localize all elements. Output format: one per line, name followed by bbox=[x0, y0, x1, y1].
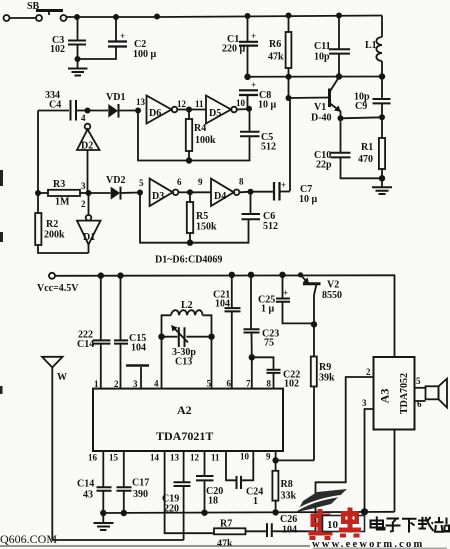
pin 10 wire bbox=[240, 451, 253, 480]
svg-text:R2: R2 bbox=[46, 219, 58, 230]
node C11 bottom bbox=[336, 73, 342, 79]
svg-text:43: 43 bbox=[83, 490, 93, 501]
svg-text:R1: R1 bbox=[361, 142, 373, 153]
node V2 collector C25 bbox=[311, 321, 317, 327]
svg-text:C14: C14 bbox=[77, 339, 94, 350]
capacitor C10 bbox=[314, 118, 382, 178]
inverter D3 bbox=[137, 177, 190, 206]
svg-text:TDA7052: TDA7052 bbox=[399, 373, 410, 414]
svg-text:1: 1 bbox=[94, 379, 99, 389]
pin 3 wire A3 bbox=[362, 398, 374, 512]
capacitor C14 bottom bbox=[77, 479, 112, 514]
svg-text:A2: A2 bbox=[177, 403, 192, 417]
svg-text:9: 9 bbox=[198, 177, 203, 187]
svg-text:15: 15 bbox=[109, 453, 119, 463]
svg-text:W: W bbox=[57, 372, 67, 383]
capacitor C23 bbox=[244, 275, 280, 358]
svg-text:C9: C9 bbox=[355, 101, 367, 112]
wire Vcc rail bbox=[55, 275, 395, 357]
watermark bug char 1 bbox=[309, 509, 333, 540]
node Vcc C14 bbox=[98, 272, 104, 278]
node tank right bbox=[208, 334, 214, 340]
wire y77 rail bbox=[248, 76, 382, 78]
svg-text:C11: C11 bbox=[314, 41, 331, 52]
resistor R6 bbox=[268, 16, 291, 99]
svg-text:6: 6 bbox=[177, 177, 182, 187]
svg-text:75: 75 bbox=[264, 338, 274, 349]
pin 14 wire bbox=[150, 451, 214, 533]
svg-text:1: 1 bbox=[253, 496, 258, 507]
svg-text:12: 12 bbox=[190, 453, 200, 463]
svg-text:C4: C4 bbox=[49, 100, 61, 111]
svg-text:100 μ: 100 μ bbox=[133, 49, 157, 60]
wire left column bbox=[37, 111, 39, 194]
svg-text:3: 3 bbox=[133, 379, 138, 389]
node gnd R8 bbox=[272, 509, 278, 515]
svg-text:5: 5 bbox=[139, 178, 144, 188]
Vcc terminal bbox=[37, 273, 79, 294]
resistor R1 bbox=[358, 117, 385, 178]
capacitor C6 bbox=[242, 192, 279, 232]
svg-text:R5: R5 bbox=[196, 211, 208, 222]
node R3 right bbox=[86, 190, 92, 196]
svg-text:www.eeworm.com: www.eeworm.com bbox=[312, 539, 424, 549]
node gnd C17 bbox=[121, 510, 127, 516]
capacitor C21 bbox=[213, 275, 241, 389]
svg-text:220 μ: 220 μ bbox=[222, 44, 246, 55]
svg-text:4: 4 bbox=[81, 113, 86, 123]
node D3 out / R5 top bbox=[187, 189, 193, 195]
wire emitter to C9 bottom bbox=[341, 117, 383, 118]
svg-text:C14: C14 bbox=[77, 479, 94, 490]
svg-text:33k: 33k bbox=[281, 491, 297, 502]
wire ground rail bbox=[103, 512, 394, 513]
svg-text:Q606.COM: Q606.COM bbox=[0, 532, 57, 546]
pin 13 wire bbox=[170, 451, 184, 482]
wire V1 base to C7 riser bbox=[289, 98, 291, 191]
svg-text:102: 102 bbox=[50, 44, 65, 55]
svg-text:3: 3 bbox=[81, 181, 86, 191]
node R5 bottom bbox=[187, 240, 193, 246]
capacitor C25 bbox=[258, 275, 314, 324]
node V2 emitter on rail bbox=[298, 272, 303, 277]
resistor R7 bbox=[214, 519, 266, 549]
svg-text:R3: R3 bbox=[53, 179, 65, 190]
svg-text:5: 5 bbox=[207, 379, 212, 389]
capacitor C17 bbox=[117, 478, 150, 514]
svg-text:V2: V2 bbox=[327, 280, 339, 291]
svg-text:390: 390 bbox=[133, 489, 148, 500]
transistor V1 bbox=[311, 77, 341, 124]
svg-text:14: 14 bbox=[150, 453, 160, 463]
diode VD1 bbox=[88, 92, 139, 118]
capacitor C26 bbox=[267, 514, 316, 537]
svg-text:12: 12 bbox=[177, 99, 187, 109]
resistor R5 bbox=[187, 192, 217, 242]
capacitor C13 variable bbox=[162, 325, 212, 368]
node V1 emitter bbox=[338, 115, 344, 121]
svg-text:2: 2 bbox=[114, 379, 119, 389]
svg-text:L1: L1 bbox=[365, 40, 377, 51]
inverter D2 bbox=[77, 124, 100, 193]
diode VD2 bbox=[89, 175, 141, 200]
svg-text:D1~D6:CD4069: D1~D6:CD4069 bbox=[155, 255, 222, 266]
node R3 left bbox=[35, 190, 41, 196]
node top rail dots bbox=[74, 13, 342, 21]
wire antenna bottom rail bbox=[52, 539, 183, 541]
capacitor C14 top bbox=[77, 276, 111, 389]
svg-text:R7: R7 bbox=[220, 519, 232, 530]
svg-text:D5: D5 bbox=[209, 108, 221, 119]
svg-text:13: 13 bbox=[136, 97, 146, 107]
resistor R8 bbox=[272, 460, 296, 512]
node tank left bbox=[158, 334, 164, 340]
svg-text:47k: 47k bbox=[217, 539, 233, 549]
svg-text:6: 6 bbox=[227, 379, 232, 389]
op-amp U1 A2 TDA7021T chip bbox=[93, 389, 283, 451]
capacitor C9 bbox=[354, 77, 391, 118]
inductor L1 bbox=[365, 16, 382, 77]
svg-text:D4: D4 bbox=[214, 191, 226, 202]
node D6 out / R4 top bbox=[186, 107, 192, 113]
svg-text:D2: D2 bbox=[81, 141, 93, 152]
svg-text:10: 10 bbox=[236, 98, 246, 108]
svg-text:39k: 39k bbox=[319, 373, 335, 384]
svg-text:104: 104 bbox=[282, 525, 297, 536]
svg-text:+: + bbox=[251, 31, 256, 41]
pin 3 stub bbox=[126, 366, 149, 390]
capacitor C7 bbox=[251, 180, 318, 205]
watermark white box 10 bbox=[323, 516, 365, 532]
node C4-VD1 bbox=[85, 108, 91, 114]
svg-text:2: 2 bbox=[366, 367, 371, 377]
svg-text:D3: D3 bbox=[152, 191, 164, 202]
node gnd C20 bbox=[201, 510, 207, 516]
svg-text:+: + bbox=[281, 180, 286, 190]
antenna W bbox=[42, 357, 67, 540]
capacitor C15 bbox=[114, 276, 146, 389]
svg-text:13: 13 bbox=[170, 453, 180, 463]
pin 12 wire bbox=[190, 451, 205, 476]
node Vcc C21 bbox=[229, 272, 235, 278]
svg-text:V1: V1 bbox=[314, 102, 326, 113]
wire A3 pin6 bbox=[415, 399, 426, 409]
watermark bug char 2 bbox=[339, 508, 361, 538]
node gnd C14b bbox=[100, 510, 106, 516]
wire base lead bbox=[289, 97, 329, 100]
capacitor C5 bbox=[240, 109, 276, 153]
capacitor C2 bbox=[78, 17, 157, 60]
node C23 bottom bbox=[249, 354, 255, 360]
svg-text:C13: C13 bbox=[175, 357, 192, 368]
svg-text:470: 470 bbox=[358, 154, 373, 165]
switch SB bbox=[4, 1, 67, 21]
ground below R1 bbox=[372, 178, 392, 194]
wire A3 pin5 bbox=[415, 376, 426, 388]
svg-text:D6: D6 bbox=[149, 108, 161, 119]
wire A3 gnd pin bbox=[394, 430, 396, 512]
node gnd A3pin3 bbox=[361, 508, 368, 515]
op-amp U2 A3 TDA7052 chip bbox=[374, 357, 415, 430]
node R6 on y77 rail bbox=[286, 74, 292, 80]
page bottom artifact line bbox=[0, 545, 310, 547]
svg-text:8: 8 bbox=[267, 379, 272, 389]
inverter D4 bbox=[190, 177, 251, 207]
svg-text:2: 2 bbox=[81, 199, 86, 209]
svg-text:C26: C26 bbox=[280, 514, 297, 525]
node C1-C8 junction bbox=[244, 74, 250, 80]
node D4 out bbox=[248, 189, 254, 195]
node D5 out bbox=[246, 106, 252, 112]
inductor L2 tank top bbox=[162, 300, 212, 337]
inverter D6 bbox=[136, 96, 189, 124]
capacitor C11 bbox=[314, 16, 350, 77]
svg-text:512: 512 bbox=[263, 221, 278, 232]
wire row2 feedback bbox=[140, 193, 249, 243]
wire row1 feedback bbox=[138, 111, 250, 161]
wire tank to pins 4,5 bbox=[162, 337, 212, 389]
node C9 bottom bbox=[379, 114, 385, 120]
svg-text:9: 9 bbox=[266, 452, 271, 462]
pin 16 wire bbox=[88, 451, 103, 487]
capacitor C24 bbox=[237, 476, 264, 507]
svg-text:D-40: D-40 bbox=[311, 113, 332, 124]
svg-text:R4: R4 bbox=[194, 123, 206, 134]
wire pin7 bbox=[251, 357, 253, 388]
capacitor C4 bbox=[38, 90, 88, 121]
node R1 bottom bbox=[379, 175, 385, 181]
svg-text:+: + bbox=[283, 288, 288, 298]
svg-text:7: 7 bbox=[246, 379, 251, 389]
speaker bbox=[426, 379, 448, 408]
svg-text:SB: SB bbox=[27, 1, 40, 12]
svg-text:104: 104 bbox=[131, 343, 146, 354]
svg-text:8: 8 bbox=[239, 177, 244, 187]
node D6 input bbox=[135, 108, 141, 114]
node Vcc C23 bbox=[248, 272, 254, 278]
svg-text:D1: D1 bbox=[83, 232, 95, 243]
pin 15 wire bbox=[109, 451, 124, 487]
resistor R4 bbox=[186, 110, 216, 161]
wire top rail bbox=[66, 16, 382, 18]
svg-text:1M: 1M bbox=[55, 197, 70, 208]
svg-text:100k: 100k bbox=[195, 135, 216, 146]
svg-text:VD1: VD1 bbox=[106, 92, 125, 103]
capacitor C19 bbox=[162, 482, 191, 540]
pin 9 wire bbox=[266, 451, 276, 462]
svg-text:18: 18 bbox=[208, 496, 218, 507]
svg-text:+: + bbox=[251, 80, 256, 90]
capacitor C20 bbox=[196, 476, 223, 513]
svg-text:10: 10 bbox=[240, 452, 250, 462]
svg-text:8550: 8550 bbox=[322, 290, 342, 301]
svg-text:R8: R8 bbox=[281, 479, 293, 490]
svg-text:R9: R9 bbox=[319, 362, 331, 373]
wire C26 riser to A3 pin2 bbox=[316, 377, 374, 531]
node R4 bottom bbox=[186, 157, 192, 163]
node Vcc C25 bbox=[279, 272, 285, 278]
svg-text:10p: 10p bbox=[314, 52, 330, 63]
inverter D5 bbox=[189, 96, 249, 124]
resistor R9 bbox=[311, 324, 335, 460]
svg-text:22p: 22p bbox=[316, 160, 332, 171]
pin 11 wire bbox=[211, 451, 236, 480]
svg-text:104: 104 bbox=[215, 299, 230, 310]
ground symbol bottom bbox=[94, 513, 114, 530]
svg-text:16: 16 bbox=[88, 453, 98, 463]
svg-text:150k: 150k bbox=[196, 222, 217, 233]
svg-text:R6: R6 bbox=[269, 39, 281, 50]
wire pin9 to R9 bbox=[276, 459, 314, 461]
svg-text:5: 5 bbox=[416, 376, 421, 386]
resistor R2 bbox=[35, 193, 88, 253]
svg-text:1 μ: 1 μ bbox=[261, 304, 275, 315]
transistor V2 bbox=[301, 275, 343, 325]
svg-text:C17: C17 bbox=[132, 478, 149, 489]
svg-text:VD2: VD2 bbox=[106, 175, 125, 186]
node pin9 bbox=[272, 457, 278, 463]
ground below C3 bbox=[68, 56, 88, 76]
svg-text:11: 11 bbox=[195, 99, 204, 109]
svg-text:Vcc=4.5V: Vcc=4.5V bbox=[37, 283, 79, 294]
svg-text:11: 11 bbox=[211, 453, 220, 463]
node V1 base bbox=[286, 95, 292, 101]
svg-text:10 μ: 10 μ bbox=[258, 100, 277, 111]
svg-text:4: 4 bbox=[154, 379, 159, 389]
node Vcc C15 bbox=[117, 272, 123, 278]
capacitor C3 bbox=[50, 17, 86, 59]
svg-text:TDA7021T: TDA7021T bbox=[156, 429, 213, 443]
left edge smudges bbox=[0, 170, 3, 394]
svg-text:A3: A3 bbox=[377, 389, 391, 404]
inverter D1 bbox=[77, 193, 101, 253]
watermark site name dianzi xiazai zhan bbox=[371, 517, 450, 533]
capacitor C8 bbox=[239, 80, 277, 111]
svg-text:+: + bbox=[120, 31, 125, 41]
svg-text:10: 10 bbox=[327, 519, 339, 531]
svg-text:47k: 47k bbox=[268, 52, 284, 63]
watermark swoosh logo bbox=[297, 489, 347, 512]
capacitor C22 bbox=[252, 357, 300, 389]
svg-text:200k: 200k bbox=[44, 230, 65, 241]
svg-text:L2: L2 bbox=[181, 300, 193, 311]
resistor R3 bbox=[38, 179, 89, 208]
svg-text:512: 512 bbox=[261, 142, 276, 153]
node L1 bottom bbox=[379, 73, 385, 79]
capacitor C1 bbox=[222, 16, 258, 77]
svg-text:10 μ: 10 μ bbox=[299, 194, 318, 205]
svg-text:3: 3 bbox=[362, 398, 367, 408]
svg-text:102: 102 bbox=[284, 379, 299, 390]
